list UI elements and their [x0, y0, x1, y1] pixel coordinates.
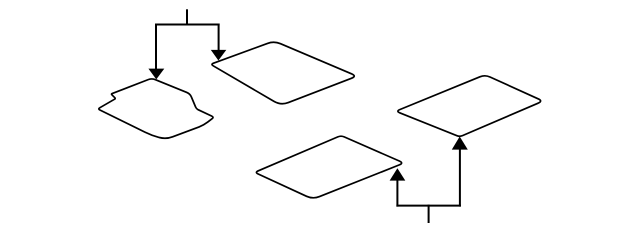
arrowhead into node B	[211, 50, 227, 61]
arrowhead into node A	[148, 69, 164, 80]
wire horizontal branch bottom	[397, 205, 460, 207]
arrowhead into node C	[390, 168, 406, 180]
arrowhead into node D	[452, 137, 468, 150]
node C parallelogram	[256, 136, 401, 198]
node B parallelogram	[212, 42, 354, 103]
wire vertical rise to node D	[459, 149, 461, 206]
wire stub bottom	[428, 206, 430, 222]
node A parallelogram (sketchy, jagged edges)	[99, 79, 213, 138]
wire vertical drop to node A	[155, 25, 157, 70]
node D parallelogram	[398, 76, 541, 136]
wire horizontal branch top	[156, 24, 219, 26]
wire vertical drop to node B	[218, 25, 220, 52]
wire vertical rise to node C	[396, 180, 398, 206]
wire stub top	[186, 10, 188, 24]
